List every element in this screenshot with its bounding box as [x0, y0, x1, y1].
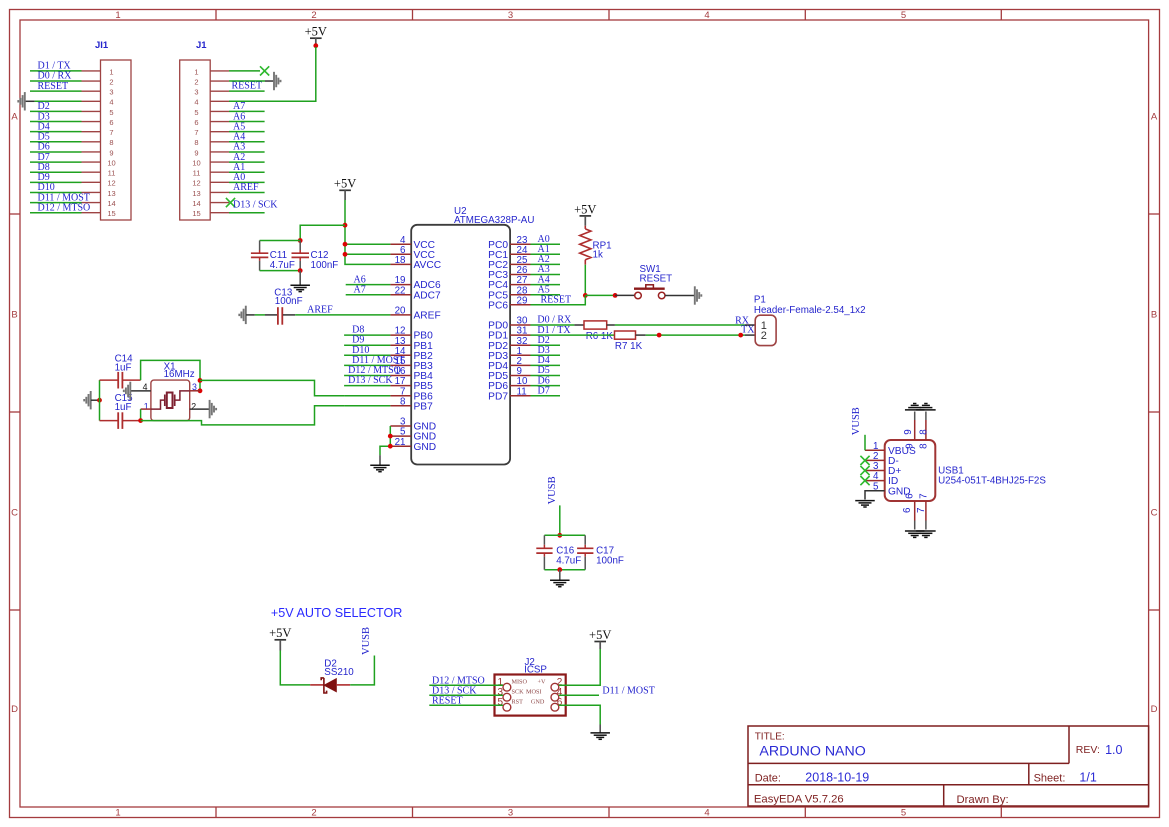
switch SW1: [615, 264, 694, 299]
svg-text:15: 15: [192, 209, 200, 218]
junction: [388, 444, 393, 449]
wire C14 to X1 top loop: [141, 360, 200, 390]
svg-text:ADC7: ADC7: [414, 290, 442, 301]
power +5V rail: [334, 177, 356, 200]
svg-text:PB7: PB7: [414, 401, 434, 412]
ground USB top 2: [916, 404, 936, 410]
svg-text:5: 5: [109, 108, 113, 117]
svg-text:R6 1K: R6 1K: [586, 331, 614, 342]
wire crystal to PB6: [200, 380, 344, 395]
svg-text:D11 / MOST: D11 / MOST: [602, 685, 654, 696]
svg-text:9: 9: [109, 148, 113, 157]
svg-text:B: B: [11, 310, 17, 321]
svg-text:7: 7: [109, 128, 113, 137]
wire: [30, 191, 82, 193]
U2 pin 3 GND: [390, 417, 436, 433]
wire: [30, 70, 82, 72]
svg-text:AREF: AREF: [414, 311, 441, 322]
ground C16: [559, 570, 561, 580]
junction: [298, 238, 303, 243]
svg-text:JI1: JI1: [95, 40, 109, 51]
crystal X1: [143, 362, 197, 421]
wire: [531, 243, 561, 245]
svg-text:D: D: [11, 704, 18, 715]
connector USB1: [865, 412, 1046, 530]
svg-text:6: 6: [194, 118, 198, 127]
svg-text:4.7uF: 4.7uF: [556, 555, 581, 566]
junction: [313, 43, 318, 48]
svg-text:11: 11: [108, 169, 116, 178]
U2 pin 11 PD7: [488, 386, 530, 402]
svg-text:2: 2: [191, 402, 196, 412]
svg-text:C: C: [11, 508, 18, 519]
X1 pin 1 stub: [141, 408, 151, 410]
U2 pin 25 PC2: [488, 255, 530, 271]
svg-text:D7: D7: [538, 385, 550, 396]
ground C13: [239, 306, 246, 324]
ground USB GND pin: [865, 491, 885, 500]
svg-text:12: 12: [192, 179, 200, 188]
svg-text:D: D: [1151, 704, 1158, 715]
svg-text:Date:: Date:: [755, 772, 781, 784]
wire: [531, 253, 561, 255]
junction: [557, 567, 562, 572]
svg-text:2: 2: [311, 808, 316, 819]
svg-text:RESET: RESET: [232, 81, 263, 92]
svg-text:8: 8: [400, 396, 406, 407]
junction: [138, 418, 143, 423]
junction: [657, 333, 662, 338]
wire: [30, 171, 82, 173]
svg-text:10: 10: [107, 158, 115, 167]
ground J1 pin 2: [265, 80, 274, 82]
wire crystal to PB7: [141, 406, 345, 425]
svg-text:5: 5: [497, 697, 503, 708]
svg-text:7: 7: [916, 508, 927, 513]
svg-text:8: 8: [194, 138, 198, 147]
ground C12: [299, 271, 301, 285]
wire +5V rail: [345, 200, 390, 264]
junction: [343, 252, 348, 257]
connector J2 ICSP: [495, 657, 566, 716]
wire: [229, 181, 265, 183]
svg-text:22: 22: [395, 285, 406, 296]
svg-text:3: 3: [508, 808, 513, 819]
wire VCC pin6: [345, 253, 390, 255]
wire: [429, 694, 503, 696]
svg-text:A: A: [11, 112, 18, 123]
svg-text:1.0: 1.0: [1105, 743, 1122, 757]
wire: [531, 354, 561, 356]
wire J2 pin 4: [559, 694, 599, 696]
wire C16 top: [544, 534, 585, 536]
junction: [613, 293, 618, 298]
wire VCC pin4: [345, 243, 390, 245]
wire U2 GND pins: [380, 426, 390, 455]
svg-text:5: 5: [901, 808, 906, 819]
wire A7: [346, 294, 391, 296]
svg-text:EasyEDA V5.7.26: EasyEDA V5.7.26: [754, 793, 844, 805]
svg-text:AREF: AREF: [307, 304, 333, 315]
wire: [344, 334, 390, 336]
svg-text:P1: P1: [754, 295, 766, 306]
no-connect X D-: [860, 456, 869, 465]
wire J1 pin 2: [229, 80, 265, 82]
wire: [344, 344, 390, 346]
X1 pin 2 stub: [190, 408, 210, 410]
svg-text:4: 4: [704, 808, 709, 819]
wire J2 pin 6: [559, 705, 600, 724]
svg-text:RESET: RESET: [38, 81, 69, 92]
svg-text:+5V: +5V: [334, 177, 356, 191]
ground USB bottom: [905, 531, 925, 537]
U2 pin 17 PB5: [390, 376, 433, 392]
svg-text:Drawn By:: Drawn By:: [957, 794, 1009, 806]
wire +5V to J2 pin 2: [559, 649, 600, 685]
U2 pin 2 PD4: [488, 356, 530, 372]
wire: [30, 202, 82, 204]
svg-text:13: 13: [107, 189, 115, 198]
svg-text:MOSI: MOSI: [526, 688, 541, 695]
capacitor C15: [100, 393, 141, 429]
wire: [30, 212, 82, 214]
U2 pin 19 ADC6: [390, 275, 441, 291]
wire VUSB down: [559, 505, 561, 535]
wire PB6: [344, 395, 390, 397]
svg-text:4: 4: [109, 98, 113, 107]
svg-text:C: C: [1151, 508, 1158, 519]
svg-text:8: 8: [918, 429, 929, 435]
svg-text:1uF: 1uF: [115, 402, 132, 413]
svg-text:9: 9: [903, 429, 914, 434]
capacitor C16: [536, 535, 581, 569]
junction: [557, 533, 562, 538]
resistor R7: [615, 331, 646, 352]
svg-text:21: 21: [395, 437, 406, 448]
resistor RP1: [580, 226, 612, 265]
U2 pin 7 PB6: [390, 386, 433, 402]
wire: [229, 131, 265, 133]
wire: [30, 80, 82, 82]
svg-text:PC6: PC6: [488, 300, 508, 311]
svg-text:GND: GND: [531, 698, 545, 705]
svg-text:20: 20: [395, 306, 406, 317]
svg-text:5: 5: [194, 108, 198, 117]
svg-text:RST: RST: [512, 698, 524, 705]
U2 pin 26 PC3: [488, 265, 530, 281]
svg-text:5: 5: [901, 10, 906, 21]
connector J1: [180, 40, 229, 220]
svg-text:ATMEGA328P-AU: ATMEGA328P-AU: [454, 215, 534, 226]
svg-text:9: 9: [194, 148, 198, 157]
svg-text:1: 1: [109, 67, 113, 76]
wire: [229, 161, 265, 163]
svg-text:6: 6: [902, 507, 913, 513]
svg-text:15: 15: [107, 209, 115, 218]
ground crystal left: [84, 391, 91, 409]
svg-text:+5V: +5V: [589, 628, 611, 642]
wire to C12: [300, 225, 345, 240]
junction: [388, 434, 393, 439]
connector JI1: [82, 40, 132, 220]
X1 pin 3 stub: [190, 390, 200, 392]
wire: [344, 385, 390, 387]
svg-text:B: B: [1151, 310, 1157, 321]
power +5V D2: [269, 626, 291, 650]
wire crystal left rail: [99, 380, 101, 421]
svg-text:+5V: +5V: [574, 202, 596, 216]
svg-text:GND: GND: [414, 442, 437, 453]
wire PD0 to R6: [531, 324, 575, 326]
power +5V RP1: [574, 202, 596, 226]
svg-text:A: A: [1151, 112, 1158, 123]
U2 pin 15 PB3: [390, 356, 433, 372]
wire D2 to VUSB: [350, 656, 374, 685]
diode D2 SS210: [310, 658, 354, 693]
svg-text:TITLE:: TITLE:: [755, 731, 785, 742]
U2 pin 24 PC1: [488, 245, 530, 261]
U2 pin 13 PB1: [390, 336, 433, 352]
svg-text:TX: TX: [741, 325, 755, 336]
junction: [198, 378, 203, 383]
U2 pin 5 GND: [390, 427, 436, 443]
ground JI1 pin 4: [25, 100, 35, 102]
svg-text:Header-Female-2.54_1x2: Header-Female-2.54_1x2: [754, 305, 866, 316]
U2 pin 16 PB4: [390, 366, 433, 382]
wire: [531, 294, 561, 296]
svg-text:U254-051T-4BHJ25-F2S: U254-051T-4BHJ25-F2S: [938, 475, 1046, 486]
svg-text:2: 2: [311, 10, 316, 21]
svg-text:7: 7: [194, 128, 198, 137]
ground U2: [379, 455, 381, 465]
svg-text:9: 9: [904, 443, 915, 448]
svg-text:ARDUNO NANO: ARDUNO NANO: [759, 744, 865, 760]
svg-text:+5V: +5V: [305, 25, 327, 39]
svg-text:18: 18: [395, 255, 406, 266]
svg-text:+V: +V: [538, 678, 546, 685]
no-connect X ID: [860, 476, 869, 485]
svg-text:8: 8: [918, 443, 929, 449]
U2 pin 10 PD6: [488, 376, 530, 392]
svg-text:RESET: RESET: [640, 273, 673, 284]
U2 pin 8 PB7: [390, 396, 433, 412]
svg-text:AVCC: AVCC: [414, 260, 442, 271]
wire: [531, 344, 561, 346]
U2 pin 32 PD2: [488, 336, 530, 352]
U2 pin 23 PC0: [488, 235, 530, 251]
U2 pin 29 PC6: [488, 295, 530, 311]
U2 pin 20 AREF: [390, 306, 440, 322]
svg-text:2: 2: [761, 330, 767, 342]
junction: [343, 223, 348, 228]
svg-text:+5V: +5V: [269, 626, 291, 640]
U2 pin 30 PD0: [488, 316, 530, 332]
wire J1 pin 15: [229, 212, 265, 214]
resistor R6: [574, 321, 615, 342]
U2 pin 28 PC5: [488, 285, 530, 301]
svg-text:7: 7: [918, 493, 929, 498]
svg-text:3: 3: [109, 88, 113, 97]
svg-text:VUSB: VUSB: [361, 627, 372, 655]
svg-text:SS210: SS210: [324, 667, 354, 678]
svg-text:PD7: PD7: [488, 391, 508, 402]
svg-text:MISO: MISO: [512, 678, 528, 685]
capacitor C13: [246, 287, 303, 324]
U2 pin 18 AVCC: [390, 255, 441, 271]
U2 pin 12 PB0: [390, 326, 433, 342]
capacitor C17: [577, 535, 624, 569]
svg-text:VUSB: VUSB: [547, 476, 558, 504]
wire C11 bottom: [260, 270, 301, 272]
svg-text:Sheet:: Sheet:: [1034, 772, 1066, 784]
svg-text:8: 8: [109, 138, 113, 147]
ground SW1: [695, 286, 702, 304]
svg-text:VUSB: VUSB: [851, 407, 862, 435]
ground X1 pin 4: [124, 382, 131, 400]
capacitor C14: [100, 354, 141, 389]
wire: [531, 274, 561, 276]
svg-text:D12 / MTSO: D12 / MTSO: [38, 202, 91, 213]
svg-text:D13 / SCK: D13 / SCK: [233, 200, 278, 211]
wire: [531, 284, 561, 286]
ground X1 pin 2: [210, 400, 217, 418]
svg-text:4.7uF: 4.7uF: [270, 260, 295, 271]
svg-text:RESET: RESET: [541, 295, 572, 306]
U2 pin 21 GND: [390, 437, 436, 453]
svg-text:SCK: SCK: [512, 688, 525, 695]
junction: [298, 268, 303, 273]
U2 pin 22 ADC7: [390, 285, 441, 301]
U2 pin 14 PB2: [390, 346, 433, 362]
no-connect X: [226, 198, 235, 207]
svg-text:2: 2: [194, 77, 198, 86]
svg-text:1k: 1k: [593, 250, 603, 261]
wire: [531, 395, 561, 397]
svg-text:A7: A7: [354, 284, 366, 295]
wire: [30, 131, 82, 133]
svg-text:D1 / TX: D1 / TX: [537, 325, 571, 336]
svg-text:ICSP: ICSP: [524, 664, 547, 675]
wire JI1 pin 4: [35, 100, 82, 102]
U2 pin 27 PC4: [488, 275, 530, 291]
wire: [429, 684, 503, 686]
ground J2: [599, 725, 601, 733]
capacitor C11: [251, 241, 295, 271]
svg-text:6: 6: [904, 493, 915, 499]
wire AREF: [295, 314, 390, 316]
connector P1: [745, 295, 866, 346]
op-amp U2 ATMEGA328P-AU body: [411, 206, 534, 465]
wire: [531, 263, 561, 265]
junction: [343, 242, 348, 247]
wire: [30, 110, 82, 112]
svg-text:16MHz: 16MHz: [164, 369, 195, 380]
wire X1 pin1 down: [140, 409, 142, 421]
wire VUSB to VBUS: [864, 435, 866, 451]
wire R6 to P1 RX: [615, 324, 745, 326]
capacitor C12: [292, 241, 339, 271]
svg-text:100nF: 100nF: [596, 555, 624, 566]
svg-text:100nF: 100nF: [311, 260, 339, 271]
wire: [229, 121, 265, 123]
wire: [30, 141, 82, 143]
wire: [30, 121, 82, 123]
X1 pin 4 stub: [131, 390, 151, 392]
wire RP1 to RESET: [584, 265, 586, 296]
U2 pin 6 VCC: [390, 245, 435, 261]
svg-text:3: 3: [194, 88, 198, 97]
svg-text:14: 14: [107, 199, 115, 208]
power +5V J2: [589, 628, 611, 649]
wire J1 pin 1: [229, 70, 260, 72]
svg-text:1: 1: [194, 67, 198, 76]
wire J1 pin 3: [229, 90, 265, 92]
wire: [531, 385, 561, 387]
ground USB bottom 2: [916, 531, 936, 537]
wire: [531, 364, 561, 366]
junction: [198, 388, 203, 393]
wire RESET to PC6: [531, 295, 586, 304]
wire: [344, 375, 390, 377]
wire C11 top: [260, 240, 301, 242]
wire PD1 to R7: [531, 334, 615, 336]
svg-text:6: 6: [557, 697, 563, 708]
svg-text:14: 14: [192, 199, 200, 208]
svg-text:D13 / SCK: D13 / SCK: [348, 375, 393, 386]
wire RESET to SW1: [585, 294, 615, 296]
wire: [229, 110, 265, 112]
svg-text:+5V AUTO SELECTOR: +5V AUTO SELECTOR: [271, 606, 402, 620]
wire: [344, 364, 390, 366]
svg-text:1/1: 1/1: [1079, 771, 1096, 785]
svg-text:1: 1: [144, 402, 149, 412]
wire +5V to J1 pin 4: [229, 47, 316, 101]
U2 pin 4 VCC: [390, 235, 435, 251]
svg-text:R7 1K: R7 1K: [615, 341, 643, 352]
svg-text:1uF: 1uF: [115, 363, 132, 374]
wire: [429, 704, 503, 706]
wire R7 to P1 TX: [646, 334, 745, 336]
junction: [583, 293, 588, 298]
svg-text:J1: J1: [196, 40, 207, 51]
svg-text:100nF: 100nF: [275, 296, 303, 307]
wire PB7: [344, 405, 390, 407]
wire: [30, 181, 82, 183]
svg-text:4: 4: [704, 10, 709, 21]
junction: [738, 333, 743, 338]
wire: [30, 90, 82, 92]
wire: [229, 191, 265, 193]
svg-text:4: 4: [194, 98, 198, 107]
svg-text:3: 3: [508, 10, 513, 21]
svg-text:10: 10: [192, 158, 200, 167]
svg-text:11: 11: [193, 169, 201, 178]
U2 pin 9 PD5: [488, 366, 530, 382]
wire: [229, 171, 265, 173]
no-connect X D+: [860, 466, 869, 475]
no-connect X: [260, 66, 269, 75]
svg-text:AREF: AREF: [233, 182, 259, 193]
svg-text:2018-10-19: 2018-10-19: [805, 771, 869, 785]
wire A6: [346, 284, 391, 286]
svg-text:12: 12: [107, 179, 115, 188]
ground USB top: [905, 404, 925, 410]
svg-text:1: 1: [115, 808, 120, 819]
svg-text:29: 29: [517, 295, 528, 306]
wire +5V to D2: [280, 651, 310, 685]
U2 pin 1 PD3: [488, 346, 530, 362]
wire C16 bottom: [544, 569, 585, 571]
